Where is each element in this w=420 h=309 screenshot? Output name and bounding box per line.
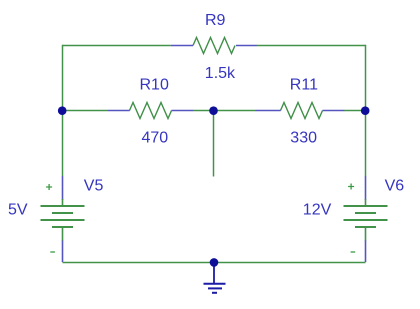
svg-text:12V: 12V (303, 202, 332, 219)
svg-text:R9: R9 (205, 12, 226, 29)
svg-text:5V: 5V (8, 202, 28, 219)
svg-text:V5: V5 (84, 177, 104, 194)
svg-text:1.5k: 1.5k (205, 65, 236, 82)
svg-text:R11: R11 (290, 76, 318, 93)
svg-text:V6: V6 (385, 178, 405, 195)
svg-text:470: 470 (142, 130, 169, 147)
svg-text:330: 330 (290, 130, 317, 147)
svg-text:R10: R10 (140, 76, 169, 93)
